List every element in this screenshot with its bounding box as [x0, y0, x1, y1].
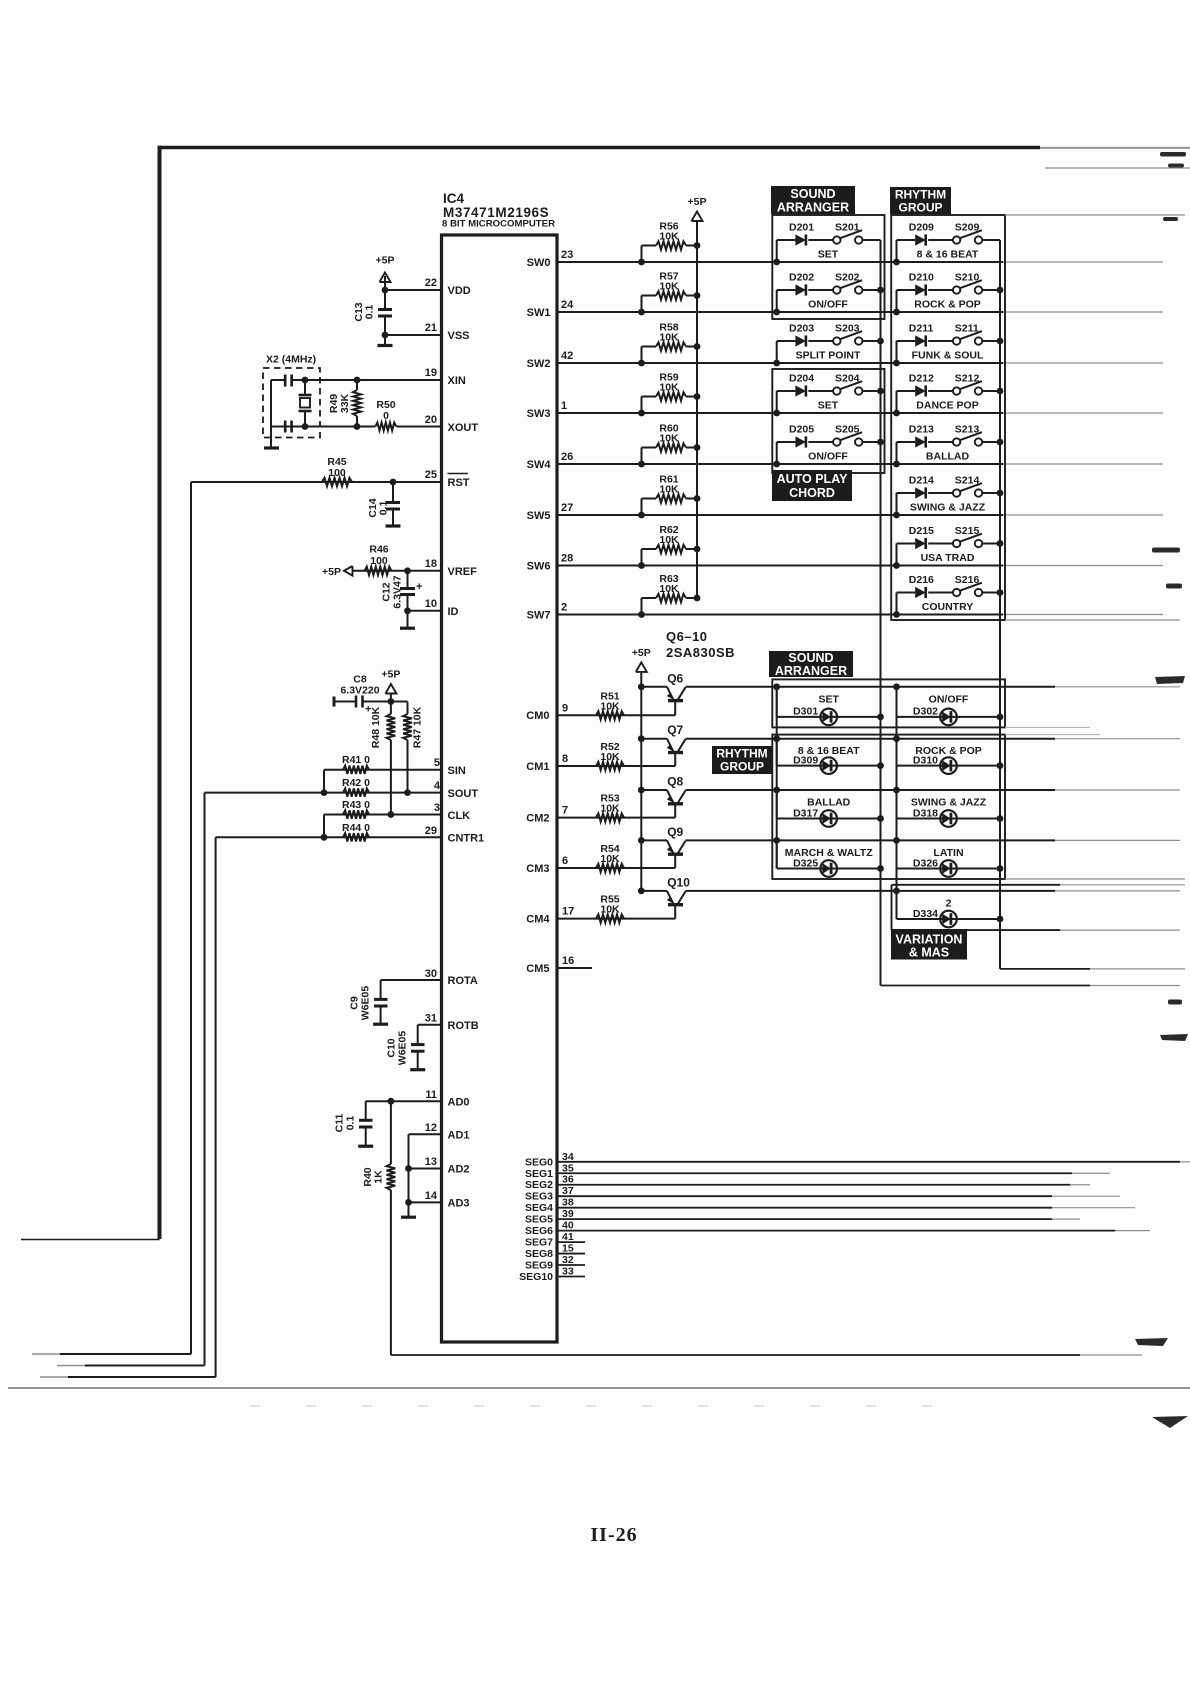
- svg-text:SEG10: SEG10: [519, 1271, 553, 1283]
- capacitor C14 0.1: [390, 479, 397, 486]
- resistor R60 10K: [642, 447, 657, 449]
- border frame top line: [158, 146, 1041, 150]
- svg-text:SEG4: SEG4: [525, 1202, 553, 1214]
- resistor R58 10K: [642, 346, 657, 348]
- svg-text:D209: D209: [909, 222, 934, 234]
- wire SW7 row: [557, 614, 1003, 616]
- edge mark: [1166, 584, 1182, 589]
- svg-text:30: 30: [425, 968, 437, 980]
- svg-text:0.1: 0.1: [364, 305, 376, 320]
- svg-text:D302: D302: [913, 706, 938, 718]
- svg-text:16: 16: [562, 955, 574, 967]
- svg-text:22: 22: [425, 277, 437, 289]
- svg-text:VARIATION: VARIATION: [896, 933, 963, 947]
- wire R61 stub to SW5: [641, 499, 643, 516]
- wire R57 stub to SW1: [641, 296, 643, 313]
- svg-text:D211: D211: [909, 323, 934, 335]
- wire transistor Q6 collector feed row: [686, 686, 1056, 688]
- capacitor in X2 top: [284, 375, 287, 387]
- wire SEG7 row: [557, 1241, 585, 1243]
- svg-text:AD1: AD1: [448, 1130, 470, 1142]
- edge mark: [1163, 217, 1178, 221]
- svg-text:SWING & JAZZ: SWING & JAZZ: [910, 502, 986, 514]
- wire CNTR1 bottom exit left: [68, 1376, 216, 1378]
- diode D205 and switch S205 ON/OFF: [776, 442, 778, 464]
- svg-text:SW4: SW4: [527, 459, 552, 471]
- svg-text:ON/OFF: ON/OFF: [929, 693, 969, 705]
- wire SEG6 row: [557, 1230, 1115, 1232]
- box around SET ON-OFF switches upper: [772, 215, 884, 319]
- svg-text:S202: S202: [835, 272, 860, 284]
- wire RST vertical to bottom: [190, 482, 192, 1354]
- svg-text:SET: SET: [818, 693, 839, 705]
- svg-text:D317: D317: [793, 807, 818, 819]
- diode D216 and switch S216 COUNTRY: [896, 593, 898, 615]
- wire transistor Q7 collector feed row: [686, 738, 1056, 740]
- svg-text:19: 19: [425, 367, 437, 379]
- wire AD1 net: [409, 1133, 442, 1135]
- svg-text:W6E05: W6E05: [360, 986, 372, 1021]
- svg-text:10K: 10K: [659, 432, 679, 444]
- svg-text:27: 27: [561, 502, 573, 514]
- svg-text:S211: S211: [955, 323, 979, 335]
- wire SEG0 row: [557, 1161, 1180, 1163]
- resistor R48 10K: [390, 702, 392, 715]
- svg-text:6.3V47: 6.3V47: [392, 575, 404, 608]
- diode D201 and switch S201 SET: [776, 240, 778, 262]
- svg-text:ROTB: ROTB: [448, 1020, 479, 1032]
- svg-text:24: 24: [561, 299, 574, 311]
- led D325 MARCH & WALTZ: [776, 840, 778, 868]
- frame bottom-left tail wire: [21, 1239, 160, 1241]
- svg-text:10K: 10K: [600, 751, 620, 763]
- svg-text:D213: D213: [909, 424, 934, 436]
- svg-text:CM1: CM1: [526, 761, 549, 773]
- resistor R43 0: [343, 810, 369, 818]
- power +5P at VDD: [380, 273, 391, 283]
- svg-text:10K: 10K: [659, 381, 679, 393]
- wire ROTB net: [418, 1024, 442, 1026]
- svg-text:5: 5: [434, 757, 440, 769]
- svg-text:S213: S213: [955, 424, 980, 436]
- svg-text:8 BIT MICROCOMPUTER: 8 BIT MICROCOMPUTER: [442, 219, 555, 230]
- svg-text:R42 0: R42 0: [342, 777, 370, 789]
- wire rhythm box top continuation: [1005, 214, 1185, 216]
- svg-text:1K: 1K: [373, 1170, 385, 1184]
- wire RST bottom exit left: [60, 1353, 191, 1355]
- svg-text:S201: S201: [835, 222, 860, 234]
- box around SET ON-OFF switches lower: [772, 369, 884, 473]
- wire VSS pin 21: [385, 334, 442, 336]
- ground below C14: [386, 524, 401, 527]
- diode D202 and switch S202 ON/OFF: [776, 290, 778, 312]
- svg-text:AD0: AD0: [448, 1097, 470, 1109]
- svg-text:VSS: VSS: [448, 330, 470, 342]
- svg-text:S209: S209: [955, 222, 980, 234]
- svg-text:100: 100: [370, 555, 388, 567]
- wire AD0 net: [366, 1100, 442, 1102]
- wire VREF net: [353, 570, 442, 572]
- svg-text:6: 6: [562, 855, 568, 867]
- wire R63 stub to SW7: [641, 598, 643, 615]
- transistor Q6: [638, 683, 645, 690]
- border frame left line: [158, 146, 162, 1239]
- wire SEG5 row: [557, 1218, 1052, 1220]
- wire faint top right continuation: [1045, 167, 1190, 169]
- transistor Q7: [638, 735, 645, 742]
- ground below C13: [384, 335, 386, 344]
- wire R59 stub to SW3: [641, 397, 643, 414]
- svg-text:12: 12: [425, 1122, 437, 1134]
- svg-text:R48 10K: R48 10K: [370, 706, 382, 748]
- svg-text:SEG1: SEG1: [525, 1168, 553, 1180]
- wire CM5 stub: [557, 967, 592, 969]
- svg-text:AUTO PLAY: AUTO PLAY: [777, 472, 849, 486]
- svg-text:10K: 10K: [659, 331, 679, 343]
- wire switch return bus right column: [999, 240, 1001, 969]
- svg-text:X2 (4MHz): X2 (4MHz): [266, 354, 316, 366]
- diode D210 and switch S210 ROCK & POP: [896, 290, 898, 312]
- wire SEG9 row: [557, 1264, 585, 1266]
- wire R60 stub to SW4: [641, 448, 643, 465]
- svg-text:D202: D202: [789, 272, 814, 284]
- svg-text:COUNTRY: COUNTRY: [922, 601, 974, 613]
- svg-text:ROTA: ROTA: [448, 975, 478, 987]
- wire CLK to CNTR1 joint: [323, 815, 325, 838]
- svg-text:11: 11: [425, 1089, 437, 1101]
- svg-text:SW0: SW0: [527, 257, 551, 269]
- svg-text:ON/OFF: ON/OFF: [808, 299, 848, 311]
- svg-text:8 & 16 BEAT: 8 & 16 BEAT: [798, 745, 860, 757]
- led D334 2: [896, 891, 898, 919]
- capacitor C13 0.1: [384, 290, 386, 310]
- svg-text:26: 26: [561, 451, 573, 463]
- wire SEG1 row: [557, 1172, 1072, 1174]
- svg-text:CM5: CM5: [526, 963, 549, 975]
- wire SEG2 row: [557, 1184, 1070, 1186]
- svg-text:10: 10: [425, 598, 437, 610]
- box around rhythm leds: [772, 735, 1005, 879]
- svg-text:SOUND: SOUND: [790, 187, 835, 201]
- resistor R59 10K: [642, 396, 657, 398]
- svg-text:SWING & JAZZ: SWING & JAZZ: [911, 797, 987, 809]
- svg-text:9: 9: [562, 702, 568, 714]
- svg-text:CHORD: CHORD: [789, 486, 835, 500]
- svg-text:10K: 10K: [600, 904, 620, 916]
- led D302 ON/OFF: [896, 687, 898, 717]
- wire SW1 row: [557, 311, 1003, 313]
- edge mark: [1168, 164, 1184, 168]
- edge mark: [1168, 1000, 1182, 1005]
- svg-text:ON/OFF: ON/OFF: [808, 451, 848, 463]
- wire rhythm led box top continuation: [1005, 734, 1100, 736]
- svg-text:D212: D212: [909, 373, 934, 385]
- svg-text:D216: D216: [909, 574, 934, 586]
- svg-text:17: 17: [562, 906, 574, 918]
- led D318 SWING & JAZZ: [896, 790, 898, 819]
- svg-text:0.1: 0.1: [378, 501, 390, 516]
- svg-text:10K: 10K: [600, 853, 620, 865]
- svg-text:CNTR1: CNTR1: [448, 833, 485, 845]
- resistor R47 10K: [407, 702, 409, 715]
- wire AD2 net: [409, 1168, 442, 1170]
- svg-text:R43 0: R43 0: [342, 799, 370, 811]
- resistor R49 33K: [353, 390, 361, 416]
- ground left of C8: [333, 697, 336, 707]
- svg-text:SEG2: SEG2: [525, 1179, 553, 1191]
- svg-text:ID: ID: [448, 606, 459, 618]
- wire CM4 row: [557, 918, 675, 920]
- svg-text:+: +: [416, 581, 422, 593]
- resistor R63 10K: [642, 597, 657, 599]
- svg-text:SEG8: SEG8: [525, 1248, 553, 1260]
- wire R62 stub to SW6: [641, 549, 643, 566]
- wire SEG8 row: [557, 1253, 585, 1255]
- wire XOUT left of R50: [271, 426, 375, 428]
- svg-text:LATIN: LATIN: [933, 847, 963, 859]
- svg-text:+5P: +5P: [376, 255, 395, 267]
- resistor R61 10K: [642, 498, 657, 500]
- edge mark wedge: [1160, 1034, 1188, 1041]
- led D301 SET: [776, 687, 778, 717]
- svg-text:100: 100: [328, 467, 346, 479]
- svg-text:6.3V220: 6.3V220: [340, 685, 379, 697]
- svg-text:USA TRAD: USA TRAD: [921, 552, 975, 564]
- svg-text:29: 29: [425, 825, 437, 837]
- svg-text:10K: 10K: [659, 583, 679, 595]
- label box VARIATION & MAS: [891, 929, 967, 960]
- svg-text:S210: S210: [955, 272, 980, 284]
- svg-text:CLK: CLK: [448, 810, 471, 822]
- svg-text:VDD: VDD: [448, 285, 471, 297]
- ground below X2: [270, 427, 272, 448]
- svg-text:D334: D334: [913, 908, 938, 920]
- wire led right-column vertical: [896, 687, 898, 919]
- power +5P transistor bus: [636, 662, 647, 672]
- svg-text:D210: D210: [909, 272, 934, 284]
- svg-text:D214: D214: [909, 475, 934, 487]
- svg-text:42: 42: [561, 350, 573, 362]
- led D310 ROCK & POP: [896, 739, 898, 766]
- svg-text:8: 8: [562, 753, 568, 765]
- svg-text:D205: D205: [789, 424, 814, 436]
- svg-text:SW2: SW2: [527, 358, 551, 370]
- svg-text:10K: 10K: [659, 230, 679, 242]
- transistor Q9: [638, 837, 645, 844]
- diode D211 and switch S211 FUNK & SOUL: [896, 341, 898, 363]
- capacitor C9 W6E05: [380, 980, 382, 999]
- svg-text:Q6: Q6: [667, 671, 683, 685]
- diode D214 and switch S214 SWING & JAZZ: [896, 493, 898, 515]
- resistor R53 10K: [596, 813, 624, 821]
- diode D203 and switch S203 SPLIT POINT: [776, 341, 778, 363]
- ground below C12: [407, 611, 409, 627]
- wire rhythm box bottom continuation: [1005, 619, 1180, 621]
- wire +5P pull-up bus vertical: [696, 221, 698, 598]
- svg-text:14: 14: [425, 1190, 438, 1202]
- diode D209 and switch S209 8 & 16 BEAT: [896, 240, 898, 262]
- svg-text:ARRANGER: ARRANGER: [775, 664, 847, 678]
- svg-text:ROCK & POP: ROCK & POP: [915, 745, 982, 757]
- capacitor C12 6.3V47: [404, 567, 411, 574]
- svg-text:VREF: VREF: [448, 566, 478, 578]
- wire CM1 row: [557, 765, 675, 767]
- label box AUTO PLAY CHORD: [772, 470, 852, 501]
- wire XIN net: [271, 379, 442, 381]
- power +5P above pull-up bus: [692, 212, 703, 222]
- power +5P arrow at VREF: [344, 566, 353, 576]
- box around sound arranger leds: [772, 679, 1005, 727]
- svg-text:+5P: +5P: [381, 669, 400, 681]
- svg-text:3: 3: [434, 802, 440, 814]
- label box RHYTHM GROUP leds: [712, 746, 772, 774]
- wire CM3 row: [557, 867, 675, 869]
- resistor R41 0: [343, 766, 369, 774]
- svg-text:SEG3: SEG3: [525, 1191, 553, 1203]
- wire SW3 row: [557, 412, 1003, 414]
- edge mark wedge: [1135, 1338, 1168, 1346]
- svg-text:28: 28: [561, 553, 573, 565]
- svg-text:SET: SET: [818, 249, 839, 261]
- wire transistor Q8 collector feed row: [686, 789, 1056, 791]
- label box SOUND ARRANGER switches: [771, 186, 855, 214]
- svg-text:SW1: SW1: [527, 307, 551, 319]
- wire SW0 row: [557, 261, 1003, 263]
- wire SOUT vertical to bottom: [204, 793, 206, 1366]
- wire SEG10 row: [557, 1276, 585, 1278]
- wire page bottom rule: [8, 1387, 1190, 1389]
- svg-text:BALLAD: BALLAD: [807, 797, 851, 809]
- svg-text:S214: S214: [955, 475, 980, 487]
- capacitor in X2 bottom: [284, 421, 287, 433]
- svg-text:RHYTHM: RHYTHM: [716, 747, 767, 761]
- svg-text:IC4: IC4: [443, 191, 465, 206]
- svg-text:W6E05: W6E05: [397, 1031, 409, 1066]
- resistor R57 10K: [642, 295, 657, 297]
- wire CLK net: [324, 814, 442, 816]
- svg-text:D301: D301: [793, 706, 818, 718]
- wire XOUT net: [397, 426, 442, 428]
- box around variation led: [891, 885, 893, 930]
- svg-text:MARCH & WALTZ: MARCH & WALTZ: [785, 847, 873, 859]
- crystal X2 4MHz dashed box: [263, 368, 320, 438]
- svg-text:GROUP: GROUP: [898, 201, 942, 215]
- label box RHYTHM GROUP switches: [890, 187, 951, 214]
- svg-text:Q9: Q9: [667, 825, 683, 839]
- microcomputer IC4 M37471M2196S body: [442, 235, 558, 1342]
- svg-text:SW6: SW6: [527, 560, 551, 572]
- wire transistor Q9 collector feed row: [686, 839, 1056, 841]
- svg-text:AD3: AD3: [448, 1198, 470, 1210]
- resistor R50 0: [375, 423, 396, 431]
- svg-text:II-26: II-26: [590, 1524, 637, 1546]
- wire rhythm led box bottom continuation: [1005, 878, 1185, 880]
- svg-text:GROUP: GROUP: [720, 760, 764, 774]
- resistor R62 10K: [642, 548, 657, 550]
- svg-text:R46: R46: [369, 544, 388, 556]
- svg-text:R44 0: R44 0: [342, 822, 370, 834]
- svg-text:2: 2: [561, 602, 567, 614]
- svg-text:0.1: 0.1: [345, 1116, 357, 1131]
- svg-text:ROCK & POP: ROCK & POP: [914, 299, 981, 311]
- svg-text:CM3: CM3: [526, 863, 549, 875]
- wire SW2 row: [557, 362, 1003, 364]
- edge mark wedge: [1155, 676, 1185, 684]
- wire SW4 row: [557, 463, 1003, 465]
- svg-text:AD2: AD2: [448, 1164, 470, 1176]
- svg-text:D201: D201: [789, 222, 814, 234]
- svg-text:& MAS: & MAS: [909, 946, 949, 960]
- svg-text:S215: S215: [955, 525, 980, 537]
- transistor Q8: [638, 787, 645, 794]
- svg-text:10K: 10K: [659, 534, 679, 546]
- transistor Q10: [638, 888, 645, 895]
- svg-text:XOUT: XOUT: [448, 422, 479, 434]
- svg-text:2: 2: [946, 897, 952, 909]
- svg-text:20: 20: [425, 414, 437, 426]
- svg-text:10K: 10K: [659, 483, 679, 495]
- svg-text:ARRANGER: ARRANGER: [777, 201, 849, 215]
- svg-text:2SA830SB: 2SA830SB: [666, 645, 735, 660]
- wire AD3 net: [409, 1201, 442, 1203]
- svg-text:10K: 10K: [600, 700, 620, 712]
- svg-text:SIN: SIN: [448, 765, 466, 777]
- svg-text:Q7: Q7: [667, 723, 683, 737]
- wire SW6 row: [557, 565, 1003, 567]
- wire CM0 row: [557, 714, 675, 716]
- svg-text:FUNK & SOUL: FUNK & SOUL: [912, 350, 984, 362]
- resistor R51 10K: [596, 711, 624, 719]
- svg-text:13: 13: [425, 1156, 437, 1168]
- wire transistor Q10 collector feed row: [686, 890, 1056, 892]
- led D309 8 & 16 BEAT: [776, 739, 778, 766]
- wire switch return bus left column: [880, 240, 882, 986]
- svg-text:S203: S203: [835, 323, 860, 335]
- wire +5P to R47: [391, 701, 408, 703]
- svg-text:7: 7: [562, 805, 568, 817]
- svg-text:BALLAD: BALLAD: [926, 451, 970, 463]
- svg-text:CM2: CM2: [526, 812, 549, 824]
- svg-text:10K: 10K: [600, 803, 620, 815]
- wire led bus right exit right: [1000, 968, 1090, 970]
- wire SEG4 row: [557, 1207, 1052, 1209]
- ground below C9: [373, 1023, 388, 1026]
- wire CM2 row: [557, 817, 675, 819]
- resistor R45 100: [322, 478, 352, 486]
- svg-text:SW5: SW5: [527, 510, 551, 522]
- power +5P above R47 R48: [385, 684, 396, 694]
- svg-text:SEG5: SEG5: [525, 1214, 553, 1226]
- capacitor C11 0.1: [365, 1101, 367, 1120]
- diode D212 and switch S212 DANCE POP: [896, 391, 898, 413]
- svg-text:SEG7: SEG7: [525, 1237, 553, 1249]
- svg-text:25: 25: [425, 469, 437, 481]
- resistor R54 10K: [596, 864, 624, 872]
- edge mark arrow: [1152, 1416, 1188, 1428]
- svg-text:SEG6: SEG6: [525, 1225, 553, 1237]
- diode D204 and switch S204 SET: [776, 391, 778, 413]
- svg-text:23: 23: [561, 249, 573, 261]
- wire sound led box bottom continuation: [1005, 726, 1090, 728]
- svg-text:S205: S205: [835, 424, 860, 436]
- svg-text:+5P: +5P: [632, 647, 651, 659]
- diode D213 and switch S213 BALLAD: [896, 442, 898, 464]
- svg-text:SOUND: SOUND: [788, 651, 833, 665]
- svg-text:D215: D215: [909, 525, 934, 537]
- svg-text:XIN: XIN: [448, 375, 466, 387]
- svg-text:Q6–10: Q6–10: [666, 629, 708, 644]
- ground below AD3: [408, 1202, 410, 1216]
